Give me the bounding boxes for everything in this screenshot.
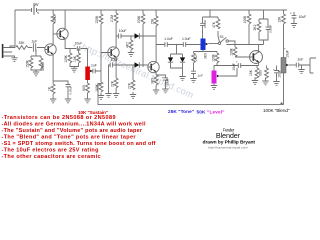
svg-text:.1uF: .1uF [90, 63, 97, 67]
svg-text:180K: 180K [95, 83, 99, 92]
svg-text:10uF: 10uF [111, 58, 119, 62]
svg-text:50K "Level": 50K "Level" [197, 110, 225, 115]
svg-text:+: + [273, 68, 275, 72]
svg-text:10uF: 10uF [165, 78, 169, 86]
svg-text:15K: 15K [150, 18, 154, 25]
svg-text:.1uF: .1uF [297, 58, 304, 62]
svg-text:-The "Sustain" and "Volume" po: -The "Sustain" and "Volume" pots are aud… [2, 128, 143, 134]
svg-text:1.0uF: 1.0uF [182, 37, 191, 41]
svg-text:.1uF: .1uF [31, 40, 38, 44]
svg-text:http://fuzzcentral.tripod.com/: http://fuzzcentral.tripod.com/ [208, 146, 248, 150]
svg-text:0.05uF: 0.05uF [68, 85, 72, 94]
svg-text:3K9: 3K9 [203, 53, 207, 59]
svg-text:47K: 47K [53, 15, 57, 22]
svg-text:680: 680 [259, 70, 263, 76]
svg-text:-Transistors can be 2N5088 or: -Transistors can be 2N5088 or 2N5089 [2, 115, 116, 121]
svg-text:10uF: 10uF [232, 63, 236, 71]
svg-text:+: + [162, 76, 164, 80]
svg-text:Blender: Blender [216, 131, 241, 140]
svg-text:.1uF: .1uF [197, 74, 203, 78]
svg-text:S1: S1 [219, 35, 223, 39]
svg-text:220K: 220K [95, 15, 99, 24]
svg-text:100K: 100K [243, 15, 247, 24]
svg-text:100K: 100K [137, 15, 141, 24]
svg-text:10uF: 10uF [299, 15, 307, 19]
svg-text:10uF: 10uF [286, 50, 290, 58]
svg-text:.033uF: .033uF [203, 19, 207, 28]
svg-text:100K "Blend": 100K "Blend" [263, 108, 290, 113]
svg-text:18K: 18K [249, 69, 253, 76]
svg-text:33K: 33K [18, 41, 25, 45]
svg-text:2.2M: 2.2M [110, 15, 114, 23]
svg-text:27K: 27K [127, 82, 131, 89]
svg-text:-The 10uF electros are 25V rat: -The 10uF electros are 25V rating [2, 148, 99, 154]
svg-text:+: + [73, 43, 75, 47]
svg-text:+: + [236, 60, 238, 64]
svg-text:2K2: 2K2 [194, 55, 198, 61]
svg-text:560K: 560K [41, 62, 45, 71]
svg-text:+: + [290, 12, 292, 16]
svg-text:.033uF: .033uF [268, 24, 272, 33]
svg-text:+: + [284, 47, 286, 51]
svg-text:47K: 47K [212, 21, 216, 28]
svg-text:10uF: 10uF [119, 29, 127, 33]
svg-text:9V: 9V [33, 2, 38, 7]
svg-text:-The "Blend" and "Tone" pots a: -The "Blend" and "Tone" pots are linear … [2, 135, 137, 141]
svg-text:4K7: 4K7 [125, 42, 129, 48]
svg-text:10uF: 10uF [75, 41, 83, 45]
svg-text:100K: 100K [229, 47, 233, 56]
svg-text:3K3: 3K3 [150, 78, 154, 84]
svg-text:120K: 120K [64, 54, 68, 63]
svg-text:-The other capacitors are cera: -The other capacitors are ceramic [2, 154, 101, 158]
svg-text:-All diodes are Germanium....1: -All diodes are Germanium....1N34A will … [2, 122, 146, 128]
svg-text:1.0uF: 1.0uF [164, 37, 173, 41]
svg-text:680: 680 [82, 85, 86, 91]
svg-text:10uF: 10uF [277, 70, 281, 78]
svg-text:25K "Tone": 25K "Tone" [168, 109, 194, 114]
svg-text:2K2: 2K2 [253, 24, 257, 30]
svg-text:100K: 100K [211, 53, 215, 62]
svg-text:10K: 10K [73, 55, 77, 62]
svg-text:10K: 10K [278, 16, 282, 23]
svg-text:150K: 150K [26, 59, 30, 68]
svg-text:-S1 = SPDT stomp switch. Turn: -S1 = SPDT stomp switch. Turns tone boos… [2, 141, 156, 147]
svg-text:22K: 22K [110, 80, 114, 87]
